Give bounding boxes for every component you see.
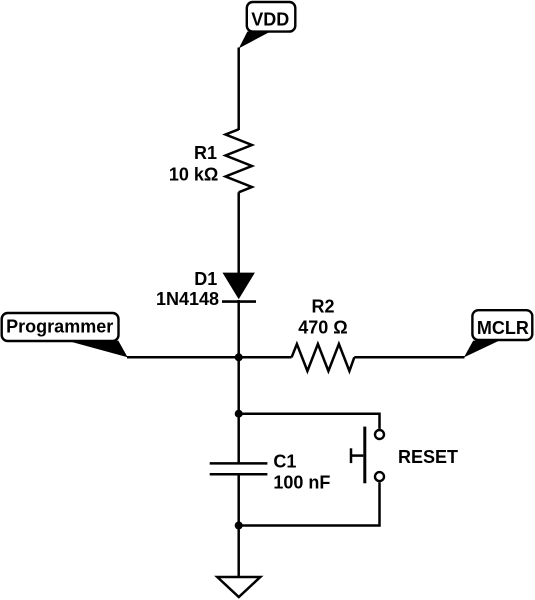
svg-text:R2: R2: [311, 297, 334, 317]
svg-text:VDD: VDD: [251, 10, 289, 30]
svg-text:10 kΩ: 10 kΩ: [169, 164, 218, 184]
svg-text:Programmer: Programmer: [6, 316, 113, 336]
svg-text:D1: D1: [194, 269, 217, 289]
svg-text:RESET: RESET: [398, 447, 458, 467]
svg-text:R1: R1: [194, 143, 217, 163]
svg-text:1N4148: 1N4148: [156, 289, 219, 309]
svg-text:470 Ω: 470 Ω: [298, 318, 347, 338]
svg-text:C1: C1: [273, 451, 296, 471]
svg-text:MCLR: MCLR: [477, 318, 529, 338]
svg-text:100 nF: 100 nF: [273, 472, 330, 492]
